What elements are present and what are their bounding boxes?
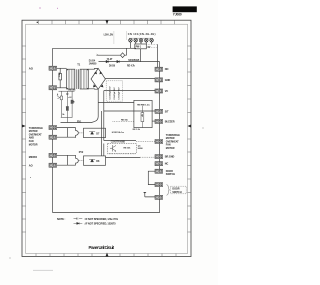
- svg-text:GND: GND: [165, 79, 171, 82]
- varistor arrow: [57, 95, 60, 98]
- transistor Q1 box: [108, 144, 137, 154]
- connector J7 (right, BR GND): [155, 155, 163, 159]
- svg-text:D5 D6: D5 D6: [109, 66, 116, 68]
- tap hook: [96, 54, 98, 56]
- wires P3 P4 to RY1 shell: [57, 128, 76, 138]
- svg-text:YJ060: YJ060: [173, 13, 182, 17]
- connector J10 (right, door sw a): [155, 183, 163, 187]
- cap C10 body: [66, 106, 69, 110]
- svg-text:NO: NO: [165, 68, 169, 71]
- wire filter bottom rail: [61, 116, 73, 118]
- svg-text:PW-1: PW-1: [136, 47, 142, 49]
- svg-text:AO: AO: [29, 66, 34, 70]
- note diode symbol: [74, 222, 83, 224]
- svg-text:BR.GND: BR.GND: [165, 156, 175, 159]
- wire staircase to sub box: [98, 102, 134, 104]
- wire T1 secondary to bridge top: [88, 67, 98, 70]
- svg-text:E: E: [73, 102, 75, 104]
- title block black bar: [173, 6, 197, 12]
- svg-text:D7: D7: [96, 132, 100, 135]
- dash-dot link RY2: [79, 160, 84, 162]
- svg-text:9k: 9k: [62, 114, 65, 116]
- transformer T1 primary: [67, 69, 75, 89]
- wire bridge right to J2 GND row: [105, 77, 155, 79]
- wire right bus second x=157.4: [156, 44, 158, 67]
- connector P4 (fan motor): [49, 135, 57, 139]
- connector CN101 pins: [129, 39, 133, 43]
- svg-text:RY1: RY1: [77, 121, 82, 124]
- dotted line under Q1 box: [108, 153, 137, 155]
- wire RY1 out to J6 row: [104, 140, 136, 142]
- line filter C1: [59, 74, 62, 80]
- wire right bus x=159.6: [159, 62, 161, 213]
- relay RY2 box: [84, 156, 106, 165]
- wire T1 secondary to bridge bottom: [88, 88, 98, 90]
- transformer T1 core: [77, 69, 79, 89]
- svg-text:6V: 6V: [148, 46, 151, 49]
- svg-text:AO: AO: [29, 164, 33, 168]
- wire J6 row dotted: [136, 140, 155, 142]
- cap C11 body: [71, 100, 74, 104]
- dash-dot link RY1: [79, 132, 84, 134]
- connector J4 (right, S/T): [155, 109, 163, 113]
- wire filter top rail: [59, 90, 75, 92]
- label TURNTABLE MOTOR OVERHEAT FAN MOTOR (right): [166, 134, 180, 150]
- diode D6: [117, 60, 120, 63]
- diode D5: [106, 60, 109, 63]
- svg-text:RE 10k: RE 10k: [124, 148, 132, 150]
- svg-text:SWITCH: SWITCH: [166, 173, 175, 176]
- relay RY2 shell: [68, 155, 79, 165]
- svg-text:RE 4.7k: RE 4.7k: [127, 65, 136, 68]
- svg-text:BUZZER: BUZZER: [165, 120, 175, 123]
- svg-text:MICRO: MICRO: [29, 155, 37, 159]
- svg-text:M 9R 10k 1w: M 9R 10k 1w: [112, 132, 125, 134]
- svg-text:RY2: RY2: [79, 151, 84, 154]
- filter branch VA1: [60, 91, 62, 117]
- connector J6 (right, turntable motor): [155, 140, 163, 144]
- connector J9 (right, door switch): [155, 169, 163, 173]
- svg-text:1N4 1N5: 1N4 1N5: [68, 88, 76, 91]
- label D1-D4 1N4005: [89, 60, 97, 66]
- svg-text:RE R8E 1.2w: RE R8E 1.2w: [137, 104, 150, 106]
- connector J1 (right, NO): [155, 67, 163, 71]
- connector P6 (AO lower): [49, 163, 57, 167]
- wire top rail to left bus: [53, 47, 131, 49]
- svg-text:C5 3300μF 16V: C5 3300μF 16V: [110, 86, 112, 100]
- wire dotted from regulator right: [146, 44, 157, 47]
- svg-text:1N4005: 1N4005: [89, 63, 97, 66]
- wire tap to diamond: [98, 48, 127, 55]
- wire RY2 to J7 row: [106, 157, 141, 159]
- svg-text:4: 4: [57, 93, 59, 96]
- svg-text:C7 100μF 25V: C7 100μF 25V: [119, 87, 121, 100]
- scan specks: [39, 7, 58, 8]
- dashed separator line: [114, 32, 127, 45]
- svg-text:: IF NOT SPECIFIED, 1S2075: : IF NOT SPECIFIED, 1S2075: [84, 223, 116, 226]
- connector J8 (right, NC): [155, 162, 163, 166]
- bridge rectifier D1-D4: [91, 68, 105, 89]
- connector J2 (right, GND): [155, 78, 163, 82]
- connector J5 (right, BUZZER): [155, 119, 163, 123]
- svg-text:MOTOR: MOTOR: [166, 147, 175, 150]
- connector J3 (right, VC): [155, 89, 163, 93]
- transformer T1 secondary: [80, 69, 88, 89]
- wire P1 to T1 primary top: [57, 67, 67, 69]
- relay RY1 shell: [68, 128, 79, 138]
- filter branch C10: [66, 91, 69, 117]
- sheet frame inner: [26, 24, 188, 253]
- svg-text:CN 101(CN-3H-4H): CN 101(CN-3H-4H): [128, 33, 156, 36]
- svg-text:S/T: S/T: [165, 110, 169, 113]
- diode D7: [89, 132, 95, 135]
- wire regulator down: [140, 49, 142, 62]
- resistor MF2: [141, 113, 144, 122]
- svg-text:D8: D8: [96, 160, 100, 163]
- svg-text:D1-D4: D1-D4: [89, 60, 96, 63]
- frame zone ticks bottom: [36, 254, 176, 257]
- frame center mark right: [188, 125, 192, 128]
- diode D8: [89, 159, 95, 162]
- svg-text:7A 2T: 7A 2T: [107, 58, 113, 61]
- regulator IC101 box: [135, 44, 147, 49]
- note resistor symbol: [74, 218, 83, 220]
- door switch dashed box: [171, 186, 187, 194]
- frame center mark left: [22, 125, 26, 128]
- varistor VA1 diamond: [121, 53, 125, 58]
- frame zone ticks right: [188, 46, 192, 232]
- connector P3 (turntable motor): [49, 126, 57, 130]
- resistor network box: [134, 100, 152, 127]
- svg-text:NOTE :: NOTE :: [57, 217, 66, 221]
- svg-text:MOTOR: MOTOR: [29, 143, 38, 146]
- wire CN pin2 down to regulator: [136, 42, 152, 44]
- connector P5 (micro): [49, 153, 57, 157]
- wire top rail right segment: [130, 47, 136, 49]
- wire box to J5 row: [152, 120, 155, 122]
- wire dotted left of box: [113, 121, 134, 123]
- svg-text:VC: VC: [165, 90, 169, 93]
- frame zone ticks top: [39, 20, 175, 24]
- svg-text:H808: H808: [138, 148, 144, 150]
- door switch lever SW1: [144, 193, 156, 197]
- stray pencil dash below frame: [33, 269, 53, 271]
- brace door switch: [167, 185, 170, 196]
- wire left bus x=52.6: [52, 48, 54, 212]
- capacitor bank box C5-C7: [106, 81, 122, 101]
- wire bridge bottom down: [97, 89, 99, 102]
- wire VC row: [104, 91, 155, 111]
- wire loop J9 to J10: [148, 171, 155, 184]
- wire P2 to T1 primary bottom: [57, 87, 67, 89]
- wire CN pins top link: [129, 37, 153, 39]
- svg-text:SWITCH: SWITCH: [172, 191, 181, 194]
- svg-text:c12: c12: [68, 97, 72, 99]
- wire filter drop: [66, 117, 68, 122]
- wire bridge branch down-left: [61, 103, 99, 123]
- svg-text:Power Unit Circuit: Power Unit Circuit: [89, 245, 115, 250]
- wires P5 P6 to RY2 shell: [57, 155, 76, 165]
- transistor Q1 symbol: [110, 145, 116, 152]
- svg-text:: IF NOT SPECIFIED, 1/4w ±5%: : IF NOT SPECIFIED, 1/4w ±5%: [84, 218, 119, 221]
- svg-text:T1: T1: [77, 63, 81, 67]
- svg-text:RE 10k: RE 10k: [121, 119, 129, 121]
- connector J11 (right, door sw b): [155, 195, 163, 199]
- sheet frame outer: [22, 20, 191, 256]
- svg-text:NC: NC: [165, 163, 169, 166]
- svg-text:C6 470μF 16V: C6 470μF 16V: [113, 87, 116, 100]
- top frame dot: [37, 22, 38, 23]
- frame center mark top: [106, 20, 109, 24]
- filter branch C11: [71, 91, 73, 117]
- wire 6V rail: [99, 61, 160, 63]
- label TURNTABLE MOTOR OVERHEAT FAN MOTOR (left): [29, 127, 43, 147]
- frame zone ticks left: [22, 46, 26, 232]
- connector P1 (left, AC line H): [49, 66, 57, 70]
- node dots T1: [67, 69, 68, 70]
- relay RY1 box: [84, 128, 106, 137]
- wire relay coil feeds: [102, 111, 104, 156]
- svg-text:RE 1.2k: RE 1.2k: [133, 129, 141, 131]
- wire bottom rail: [53, 212, 160, 214]
- wire CN pin1 down: [129, 42, 131, 48]
- svg-text:L2H L2N: L2H L2N: [104, 34, 113, 37]
- wire S/T row: [104, 110, 155, 112]
- frame center mark bottom: [106, 253, 109, 257]
- connector P2 (left, AC line N): [49, 86, 57, 90]
